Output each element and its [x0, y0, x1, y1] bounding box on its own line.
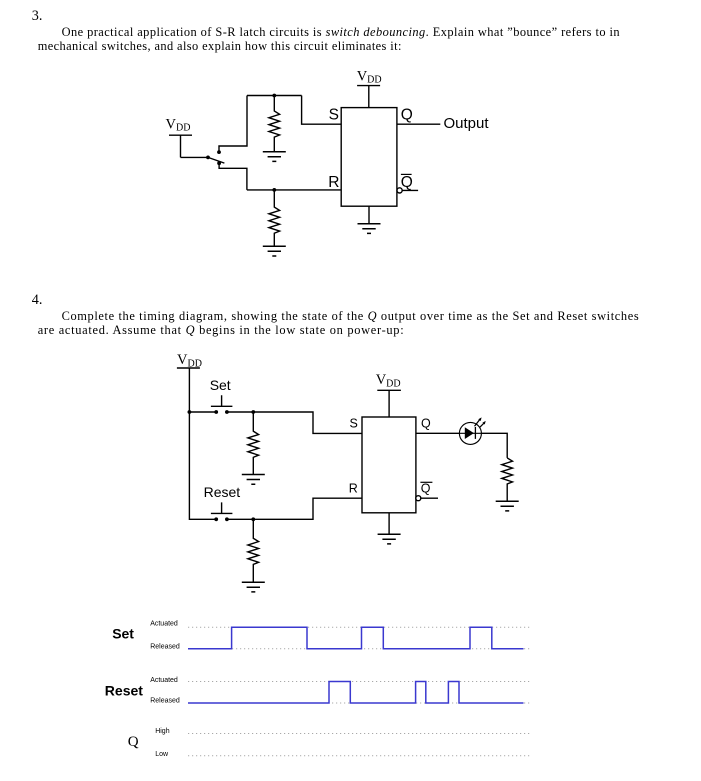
paragraph 4 line 2 — [38, 324, 405, 337]
power VDD (left rail, circuit 2) — [177, 368, 200, 412]
dotted level line Reset actuated — [188, 681, 530, 683]
ground below R3 — [242, 475, 265, 485]
pin Q-bar bubble (U2) — [416, 496, 421, 501]
svg-text:Low: Low — [155, 751, 169, 758]
resistor R4 — [248, 519, 259, 582]
wire Q-bar stub (U2) — [421, 497, 438, 499]
wire lower throw to R net — [219, 163, 247, 190]
latch U2 body — [362, 417, 416, 513]
junction node Reset/R4 — [251, 517, 255, 521]
ground below R1 — [263, 152, 286, 162]
wire Q-bar stub — [402, 189, 418, 191]
svg-text:Actuated: Actuated — [150, 620, 178, 627]
svg-text:High: High — [155, 728, 170, 735]
svg-text:R: R — [328, 174, 339, 191]
ground below R2 — [263, 246, 286, 256]
svg-text:Reset: Reset — [204, 484, 241, 500]
svg-text:Released: Released — [150, 698, 180, 705]
dotted level line Set released — [188, 648, 530, 650]
ground symbol U1 — [358, 224, 381, 234]
svg-text:S: S — [329, 107, 339, 124]
pushbutton Reset actuator — [211, 502, 233, 513]
svg-text:Q: Q — [421, 481, 431, 495]
waveform Reset — [188, 682, 524, 704]
junction node Set/R3 — [251, 410, 255, 414]
pin Q-bar bubble — [397, 188, 402, 193]
ground below R4 — [242, 582, 265, 592]
wire through LED — [460, 432, 482, 434]
svg-text:R: R — [349, 481, 358, 495]
svg-text:Q: Q — [421, 417, 431, 431]
wire LED to resistor R5 — [481, 433, 507, 458]
svg-text:Q: Q — [128, 734, 139, 750]
problem number 4 — [32, 294, 43, 308]
switch SW1 upper throw contact — [217, 150, 221, 154]
dotted level line Q low — [188, 755, 530, 757]
svg-text:Output: Output — [444, 115, 490, 132]
wire S net down and into latch — [302, 96, 342, 125]
ground below R5 — [496, 501, 519, 511]
junction node rail/Set — [188, 410, 192, 414]
svg-text:VDD: VDD — [357, 68, 382, 85]
svg-text:Set: Set — [112, 626, 134, 642]
LED D1 body — [459, 422, 481, 444]
LED D1 cathode bar — [474, 427, 476, 439]
wire left rail down to Reset — [189, 412, 216, 519]
LED D1 anode triangle — [465, 427, 474, 439]
svg-text:VDD: VDD — [166, 116, 191, 133]
power VDD (left supply, circuit 1) — [169, 135, 192, 157]
latch U1 body — [341, 108, 397, 207]
power VDD (latch 2 supply) — [377, 390, 401, 417]
svg-text:Q: Q — [401, 174, 413, 191]
svg-text:VDD: VDD — [177, 352, 202, 369]
resistor R2 — [269, 190, 280, 246]
pushbutton Reset contact right — [225, 517, 229, 521]
svg-text:Q: Q — [401, 107, 413, 124]
LED D1 light arrow 2 — [480, 423, 484, 427]
svg-text:Released: Released — [150, 644, 180, 651]
pushbutton Set actuator — [211, 395, 233, 406]
wire upper throw to top rail — [219, 96, 247, 153]
overbar of Q-bar (U2) — [420, 481, 432, 483]
switch SW1 lower throw contact — [217, 161, 221, 165]
ground stem below latch U2 — [388, 513, 390, 534]
wire rail to Set left contact — [189, 411, 216, 413]
dotted level line Q high — [188, 733, 530, 735]
paragraph 4 line 1 — [62, 310, 640, 323]
ground below latch U1 — [368, 206, 370, 223]
dotted level line Set actuated — [188, 626, 530, 628]
LED D1 arrowhead 2 — [482, 421, 485, 425]
paragraph 3 line 1 — [62, 26, 620, 39]
svg-text:Reset: Reset — [105, 683, 143, 699]
wire R net into latch — [247, 189, 341, 191]
resistor R1 — [269, 96, 280, 152]
dotted level line Reset released — [188, 702, 530, 704]
wire top rail to S corner — [247, 95, 302, 97]
svg-text:Set: Set — [210, 377, 231, 393]
waveform Set — [188, 627, 524, 649]
pushbutton Set contact right — [225, 410, 229, 414]
wire Q output — [397, 123, 440, 125]
LED D1 light arrow 1 — [475, 419, 481, 426]
resistor R5 — [502, 458, 513, 501]
pushbutton Reset contact left — [214, 517, 218, 521]
switch SW1 lever — [208, 157, 224, 163]
junction node S rail — [272, 94, 276, 98]
svg-text:Actuated: Actuated — [150, 677, 178, 684]
switch SW1 pole — [206, 156, 210, 160]
wire pole feed — [181, 156, 209, 158]
LED D1 arrowhead 1 — [478, 417, 481, 421]
pushbutton Set contact left — [214, 410, 218, 414]
problem number 3 — [32, 10, 43, 24]
resistor R3 — [248, 412, 259, 474]
overbar of Q-bar — [401, 173, 412, 175]
junction node R rail — [272, 188, 276, 192]
svg-text:VDD: VDD — [376, 372, 401, 389]
paragraph 3 line 2 — [38, 40, 402, 53]
wire Q to LED — [416, 432, 460, 434]
wire Reset to R net — [227, 498, 362, 519]
ground symbol U2 — [378, 534, 401, 544]
svg-text:S: S — [350, 416, 358, 430]
power VDD (latch 1 supply) — [357, 86, 380, 108]
wire Set to S net — [227, 412, 362, 433]
